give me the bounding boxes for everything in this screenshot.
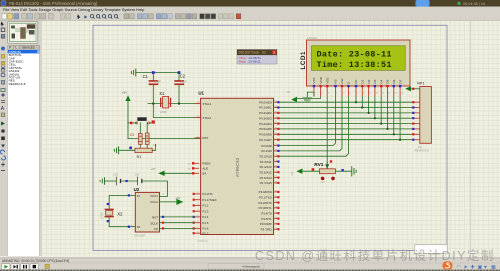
RP1 pin 7 xyxy=(412,128,420,130)
pin P2.2/A10 (23) xyxy=(260,155,280,159)
crystal X1 xyxy=(159,91,171,114)
branch wires to C3/R xyxy=(140,123,147,150)
junction node xyxy=(152,102,154,104)
pin P1.0/T2 (1) xyxy=(193,192,213,196)
resistor pack RP1 xyxy=(412,82,431,153)
menu bar xyxy=(0,7,500,13)
pin P3.5/T1 (15) xyxy=(261,217,279,221)
svg-text:VEE: VEE xyxy=(325,77,329,83)
wire: RST net from +5V rail xyxy=(128,101,201,139)
svg-text:D7: D7 xyxy=(398,79,402,83)
svg-text:4 Message(s): 4 Message(s) xyxy=(242,264,260,268)
svg-text:P2.4/A12: P2.4/A12 xyxy=(260,165,272,169)
svg-text:+5V: +5V xyxy=(286,91,291,94)
major grid line xyxy=(470,21,472,257)
svg-text:P0.3/AD3: P0.3/AD3 xyxy=(259,116,272,120)
LCD pin RS xyxy=(334,79,338,96)
svg-text:C1: C1 xyxy=(143,74,149,79)
capacitor C2 xyxy=(174,73,187,104)
CSDN logo xyxy=(443,261,453,270)
wire P0.0 to LCD D0 and RP1 xyxy=(280,101,413,103)
svg-text:00:04:38 | 14: 00:04:38 | 14 xyxy=(463,2,485,6)
sheet border xyxy=(93,25,447,250)
RP1 pin 5 xyxy=(412,117,420,119)
svg-text:File View Edit Tools Desig: File View Edit Tools Design Graph Source… xyxy=(3,7,145,12)
MCU U1 AT89C52 xyxy=(188,91,280,236)
svg-text:P0.4/AD4: P0.4/AD4 xyxy=(259,122,272,126)
svg-text:23-08-11: 23-08-11 xyxy=(249,60,261,64)
wire: C1/C2 top rail xyxy=(136,72,179,74)
svg-text:P2.6/A14: P2.6/A14 xyxy=(260,176,272,180)
pin RST (9) xyxy=(195,136,209,140)
pin XTAL2 (18) xyxy=(195,116,212,120)
svg-text:P0.6/AD6: P0.6/AD6 xyxy=(259,133,272,137)
svg-text:1.5V: 1.5V xyxy=(113,173,118,176)
svg-text:Time: 13:38:51: Time: 13:38:51 xyxy=(317,60,392,70)
svg-text:RST: RST xyxy=(152,216,158,220)
wire P0.1 to LCD D1 and RP1 xyxy=(280,107,413,109)
svg-text:P0.7/AD7: P0.7/AD7 xyxy=(259,138,272,142)
pin P3.0/RXD (10) xyxy=(259,190,280,194)
LCD pin D7 xyxy=(398,79,404,96)
pin P1.2 (3) xyxy=(193,204,209,208)
svg-text:P0.1/AD1: P0.1/AD1 xyxy=(259,106,272,110)
svg-text:RW: RW xyxy=(340,78,344,83)
potentiometer RV1 xyxy=(314,160,335,184)
svg-text:♥: ♥ xyxy=(484,265,487,271)
svg-text:P3.3/INT1: P3.3/INT1 xyxy=(258,206,272,210)
LCD pin VSS xyxy=(312,77,316,96)
LCD pin D5 xyxy=(386,79,392,96)
LCD pin RW xyxy=(340,78,344,96)
resistor R1 xyxy=(135,144,156,159)
node dot (red big) xyxy=(152,120,155,123)
pin P1.7 (8) xyxy=(193,231,209,235)
pin P0.4/AD4 (35) xyxy=(259,122,279,126)
svg-text:D0: D0 xyxy=(354,79,358,83)
svg-text:RV1: RV1 xyxy=(314,162,324,168)
pin P0.1/AD1 (38) xyxy=(259,106,279,110)
svg-text:P3.0/RXD: P3.0/RXD xyxy=(259,190,272,194)
svg-text:P3.2/INT0: P3.2/INT0 xyxy=(258,201,272,205)
wire: XTAL1 net xyxy=(148,103,201,105)
wire: X2 top to U2 X1 xyxy=(109,195,135,208)
svg-text:P3.5/T1: P3.5/T1 xyxy=(261,217,272,221)
svg-text:D1: D1 xyxy=(361,79,365,83)
svg-text:P1.5: P1.5 xyxy=(202,221,208,225)
wire P0.5 to LCD D5 and RP1 xyxy=(280,128,413,130)
LCD pin VEE xyxy=(325,77,329,96)
pushbutton (reset) xyxy=(135,117,149,124)
bottom gripper strip xyxy=(0,270,500,271)
wire LCD RS to P2.0 xyxy=(280,97,336,146)
svg-text:U1: U1 xyxy=(198,91,204,96)
svg-text:X1: X1 xyxy=(137,194,141,198)
svg-text:P1.6: P1.6 xyxy=(202,227,208,231)
svg-text:AT89C52: AT89C52 xyxy=(197,239,208,243)
pin P2.7/A15 (28) xyxy=(260,181,280,185)
pin P2.3/A11 (24) xyxy=(260,160,280,164)
ground (LCD VSS) xyxy=(303,92,315,102)
+5V terminal (EA) xyxy=(151,167,193,176)
DS1302 debug popup window xyxy=(237,50,277,65)
svg-text:Date: 23-08-11: Date: 23-08-11 xyxy=(317,49,392,59)
junction node xyxy=(178,102,180,104)
pin XTAL1 (19) xyxy=(195,102,212,106)
DS1302 U2 xyxy=(131,187,165,238)
svg-text:+5V: +5V xyxy=(122,91,127,95)
+5V terminal (RP1 common) xyxy=(405,86,420,91)
pin P3.6/WR (16) xyxy=(260,222,280,226)
svg-text:30pF: 30pF xyxy=(155,80,161,84)
RP1 pin 4 xyxy=(412,112,420,114)
capacitor C3 xyxy=(130,133,142,144)
pin P3.2/INT0 (12) xyxy=(258,201,279,205)
wire P0.2 to LCD D2 and RP1 xyxy=(280,112,413,114)
ground (crystal caps net) xyxy=(131,69,135,76)
svg-text:X2: X2 xyxy=(117,212,123,217)
ground (battery) xyxy=(100,177,104,185)
ground (R1) xyxy=(114,147,118,154)
pin P2.1/A9 (22) xyxy=(261,149,279,153)
preview pane xyxy=(8,22,38,43)
svg-text:P2.2/A10: P2.2/A10 xyxy=(260,155,272,159)
pin P2.6/A14 (27) xyxy=(260,176,280,180)
svg-text:P0.0/AD0: P0.0/AD0 xyxy=(259,100,272,104)
pin P2.0/A8 (21) xyxy=(261,144,279,148)
svg-text:P3.4/T0: P3.4/T0 xyxy=(261,211,272,215)
RP1 pin 8 xyxy=(412,133,420,135)
+5V terminal VCC2 xyxy=(160,196,184,205)
RP1 pin 3 xyxy=(412,106,420,108)
wire: battery plus to VCC1 xyxy=(142,181,168,196)
svg-text:XTAL1: XTAL1 xyxy=(202,102,211,106)
left tool column xyxy=(0,21,7,271)
pin ALE (30) xyxy=(188,167,208,171)
svg-text:P1.4: P1.4 xyxy=(202,215,208,219)
svg-text:P0.2/AD2: P0.2/AD2 xyxy=(259,111,272,115)
svg-text:D4: D4 xyxy=(379,79,383,83)
ground (RV1 right) xyxy=(335,166,356,176)
wire: LCD VEE to RV1 wiper xyxy=(326,97,328,164)
LCD pin D1 xyxy=(361,79,365,96)
svg-text:LM016L: LM016L xyxy=(307,36,318,40)
pin P3.7/RD (17) xyxy=(261,227,280,231)
svg-text:RP1: RP1 xyxy=(417,82,424,86)
svg-text:DS1302: DS1302 xyxy=(134,234,145,238)
pin P0.6/AD6 (33) xyxy=(259,133,279,137)
svg-text:P3.6/WR: P3.6/WR xyxy=(260,222,272,226)
svg-text:C2: C2 xyxy=(180,74,186,79)
wire: XTAL2 net xyxy=(153,104,200,118)
pin P1.1/T2EX (2) xyxy=(193,198,217,202)
pin P0.2/AD2 (37) xyxy=(259,111,279,115)
RP1 pin 9 xyxy=(412,139,420,141)
svg-text:CSDN @通旺科技单片机设计DIY定制: CSDN @通旺科技单片机设计DIY定制 xyxy=(255,248,495,263)
svg-text:◠: ◠ xyxy=(457,265,462,271)
svg-text:VCC1: VCC1 xyxy=(150,194,158,198)
selector header xyxy=(8,45,14,49)
svg-text:RST: RST xyxy=(202,136,208,140)
resistor (vertical, reset) xyxy=(145,133,157,147)
pin P0.0/AD0 (39) xyxy=(259,100,279,104)
svg-text:ALE: ALE xyxy=(202,167,208,171)
svg-text:E: E xyxy=(347,82,351,84)
pin P3.4/T0 (14) xyxy=(261,211,279,215)
pin P1.5 (6) xyxy=(193,221,209,225)
svg-text:PSEN: PSEN xyxy=(202,162,210,166)
RP1 pin 6 xyxy=(412,123,420,125)
+5V terminal (RV1 left) xyxy=(291,168,319,176)
svg-text:12MHz: 12MHz xyxy=(160,111,168,114)
battery cell BT2 1.5V xyxy=(135,173,142,185)
wire P0.4 to LCD D4 and RP1 xyxy=(280,123,413,125)
LCD pin E xyxy=(347,82,351,97)
node dot (blue) xyxy=(129,147,132,150)
svg-text:SCLK: SCLK xyxy=(150,221,158,225)
wire: RST net left xyxy=(128,122,136,124)
wire P0.3 to LCD D3 and RP1 xyxy=(280,117,413,119)
wire LCD E to P2.2 xyxy=(280,97,349,157)
svg-text:AT89C52: AT89C52 xyxy=(235,157,240,177)
pin P2.4/A12 (25) xyxy=(260,165,280,169)
wire P0.7 to LCD D7 and RP1 xyxy=(280,139,413,141)
svg-text:P1.3: P1.3 xyxy=(202,209,208,213)
wire: U2 RST to P1.4 xyxy=(160,216,195,218)
toolbar xyxy=(0,12,500,20)
battery cell BT1 1.5V xyxy=(113,173,137,185)
LCD pin VDD xyxy=(319,76,323,96)
wire: RST net right xyxy=(150,122,155,124)
svg-text:30pF: 30pF xyxy=(181,80,187,84)
+5V terminal (LCD VDD) xyxy=(286,91,321,102)
wire LCD RW to P2.1 xyxy=(280,97,343,151)
side panel background xyxy=(7,21,42,257)
svg-text:EA: EA xyxy=(202,172,206,176)
svg-text:✚: ✚ xyxy=(471,265,475,271)
pin P1.6 (7) xyxy=(193,227,209,231)
svg-text:➤: ➤ xyxy=(464,265,468,271)
svg-text:P2.0/A8: P2.0/A8 xyxy=(261,144,272,148)
svg-text:D6: D6 xyxy=(392,79,396,83)
svg-text:R1: R1 xyxy=(137,155,142,159)
svg-text:+5V: +5V xyxy=(151,167,156,171)
svg-text:▦: ▦ xyxy=(491,265,496,271)
node dot C1 top (blue) xyxy=(152,71,155,74)
crystal X2 32768Hz xyxy=(100,209,123,219)
pin P1.4 (5) xyxy=(193,215,209,219)
svg-text:VDD: VDD xyxy=(319,76,323,83)
svg-text:DS1302 Clock - U2: DS1302 Clock - U2 xyxy=(239,51,267,55)
pin P1.3 (4) xyxy=(193,209,209,213)
svg-text:P1.0/T2: P1.0/T2 xyxy=(202,192,213,196)
+5V power terminal (reset) xyxy=(122,91,131,101)
wire: battery minus xyxy=(105,180,117,182)
LCD pin D2 xyxy=(367,79,371,96)
recorder overlay dots xyxy=(457,2,460,5)
svg-text:32768: 32768 xyxy=(100,212,103,219)
pin P0.3/AD3 (36) xyxy=(259,116,279,120)
svg-text:D2: D2 xyxy=(367,79,371,83)
svg-text:P2.5/A13: P2.5/A13 xyxy=(260,170,272,174)
pin P3.1/TXD (11) xyxy=(259,195,280,199)
LCD pin D4 xyxy=(379,79,384,96)
wire: U2 I/O to P1.6 xyxy=(160,227,195,229)
LCD pin D6 xyxy=(392,79,398,96)
capacitor C1 xyxy=(143,73,162,104)
wire: X2 bottom to U2 X2 xyxy=(109,217,135,226)
svg-text:P1.1/T2EX: P1.1/T2EX xyxy=(202,198,216,202)
LCD pin D3 xyxy=(373,79,379,96)
title bar xyxy=(0,0,500,7)
svg-text:RESPACK-8: RESPACK-8 xyxy=(415,150,430,153)
svg-text:FB-014 DS1302 - ISIS Professi: FB-014 DS1302 - ISIS Professional (Anima… xyxy=(9,1,98,6)
svg-text:Date:: Date: xyxy=(239,60,247,64)
svg-text:▣: ▣ xyxy=(478,265,483,271)
pin P0.5/AD5 (34) xyxy=(259,127,279,131)
svg-text:ANIMATING: 00:00:04 (700000 CP: ANIMATING: 00:00:04 (700000 CPS) [load 3… xyxy=(2,259,69,263)
svg-text:P1.2: P1.2 xyxy=(202,204,208,208)
recorder bubble xyxy=(416,0,430,10)
svg-text:DEVICES: DEVICES xyxy=(22,45,35,49)
svg-text:VCC2: VCC2 xyxy=(150,200,158,204)
svg-text:+5V: +5V xyxy=(291,171,294,176)
RP1 pin 2 xyxy=(412,101,420,103)
LCD pin D0 xyxy=(354,79,358,96)
playback buttons xyxy=(2,264,50,270)
wire: U2 SCLK to P1.5 xyxy=(160,222,195,224)
svg-text:X1: X1 xyxy=(159,91,165,96)
wire: R1 left lead xyxy=(119,149,135,151)
svg-text:XTAL2: XTAL2 xyxy=(202,116,211,120)
svg-text:P1.7: P1.7 xyxy=(202,231,208,235)
svg-text:+5V: +5V xyxy=(175,196,180,200)
white corner box xyxy=(415,245,448,253)
svg-text:P2.1/A9: P2.1/A9 xyxy=(261,149,272,153)
pin PSEN (29) xyxy=(188,162,210,166)
wire P0.6 to LCD D6 and RP1 xyxy=(280,133,413,135)
svg-text:X2: X2 xyxy=(137,225,141,229)
svg-text:P0.5/AD5: P0.5/AD5 xyxy=(259,127,272,131)
device list xyxy=(8,50,40,257)
LCD LCD1 LM016L xyxy=(300,36,410,97)
status bar strip xyxy=(0,256,500,271)
svg-text:U2: U2 xyxy=(134,187,140,192)
svg-text:P3.7/RD: P3.7/RD xyxy=(261,227,272,231)
pin P2.5/A13 (26) xyxy=(260,170,280,174)
pin P3.3/INT1 (13) xyxy=(258,206,279,210)
svg-text:C3: C3 xyxy=(130,133,134,137)
pin EA (31) xyxy=(188,172,206,176)
svg-text:VSS: VSS xyxy=(312,77,316,83)
node dot C2 top (blue) xyxy=(178,71,181,74)
svg-text:P2.3/A11: P2.3/A11 xyxy=(260,160,272,164)
svg-text:RESPACK-8: RESPACK-8 xyxy=(9,82,26,86)
svg-text:P2.7/A15: P2.7/A15 xyxy=(260,181,272,185)
mini toolbar icons bottom right xyxy=(457,265,497,271)
svg-text:1.5V: 1.5V xyxy=(135,173,140,176)
schematic canvas xyxy=(42,21,500,257)
node dot (red) xyxy=(130,122,133,125)
svg-text:RS: RS xyxy=(334,79,338,83)
svg-text:P3.1/TXD: P3.1/TXD xyxy=(259,195,272,199)
svg-text:LCD1: LCD1 xyxy=(300,51,307,70)
svg-text:10K: 10K xyxy=(320,180,325,184)
svg-text:D5: D5 xyxy=(386,79,390,83)
svg-text:D3: D3 xyxy=(373,79,377,83)
pin P0.7/AD7 (32) xyxy=(259,138,279,142)
